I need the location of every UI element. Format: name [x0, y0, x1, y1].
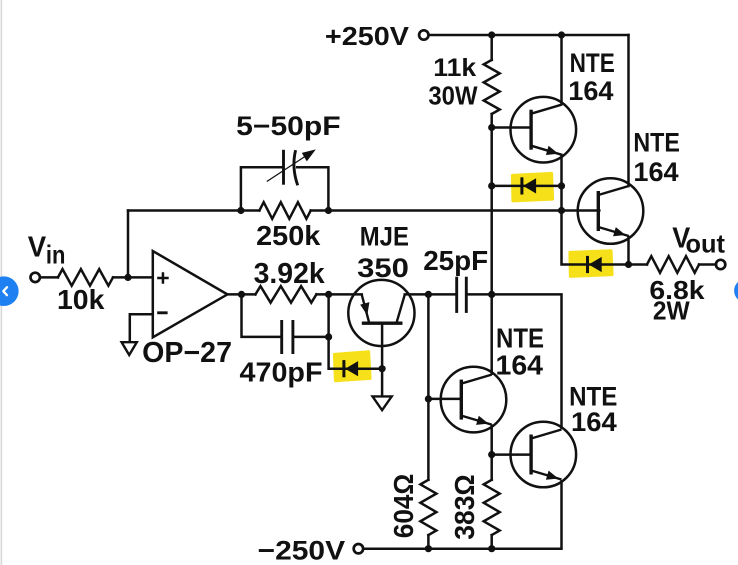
node 25pF left / 604 branch: [425, 291, 432, 298]
svg-text:164: 164: [571, 407, 617, 437]
highlight over diode D3: [570, 251, 612, 276]
wire 470pF left arm: [242, 294, 282, 337]
node D2 / Q5 base stem: [379, 365, 386, 372]
node Q4 base / 383 branch: [488, 451, 495, 458]
page left edge divider: [1, 0, 3, 565]
svg-text:10k: 10k: [57, 284, 105, 315]
svg-text:5−50pF: 5−50pF: [236, 111, 340, 141]
wire Q5 base stem to ground: [381, 323, 384, 396]
node 25pF right / spine: [488, 291, 495, 298]
svg-text:3.92k: 3.92k: [254, 258, 325, 290]
terminal Vout: [716, 260, 725, 269]
wire 470pF right arm: [293, 336, 329, 339]
svg-text:164: 164: [633, 157, 678, 187]
wire 10k to op-amp +input: [113, 276, 153, 279]
wire row node down to R 604: [427, 294, 430, 479]
svg-text:604Ω: 604Ω: [388, 474, 419, 539]
transistor Q1 NTE164 (top): [511, 97, 577, 163]
capacitor C 25pF plates: [455, 277, 458, 313]
resistor R 3.92k: [255, 286, 316, 303]
wire node down through 470pF node to diode D2 row: [329, 294, 383, 368]
wire +250V rail: [429, 34, 628, 37]
highlight over diode D1: [513, 174, 553, 201]
resistor R 11k 30W: [484, 60, 500, 114]
capacitor C 5-50pF trimmer plates: [282, 150, 285, 185]
svg-text:164: 164: [568, 76, 613, 106]
transistor Q4 NTE164 (lower right): [511, 422, 577, 488]
svg-text:+250V: +250V: [325, 21, 410, 51]
resistor R 250k: [259, 202, 310, 219]
wire D1 lead: [492, 185, 562, 188]
wire Q2 emitter drop: [627, 237, 630, 265]
svg-text:NTE: NTE: [570, 48, 615, 78]
transistor Q3 NTE164 (lower left): [441, 367, 507, 433]
nav button next (right edge): [734, 279, 738, 303]
transistor Q2 NTE164 (output follower): [578, 178, 644, 244]
svg-text:MJE: MJE: [360, 221, 409, 251]
transistor Q5 MJE350 (PNP): [348, 280, 414, 346]
node D1 left: [488, 182, 495, 189]
node Q3 base: [425, 395, 432, 402]
wire -250V rail to Q4 emitter: [364, 481, 562, 548]
svg-text:350: 350: [357, 253, 409, 283]
capacitor C 470pF plates: [280, 320, 283, 354]
svg-text:164: 164: [496, 350, 544, 381]
wire Q4 base: [492, 453, 531, 456]
node Q1 base: [488, 124, 495, 131]
wire 604 to -250V rail: [427, 535, 430, 549]
node D3 / Q2 emitter / 6.8k: [625, 261, 632, 268]
diode D1 (highlighted): [522, 177, 536, 194]
svg-text:470pF: 470pF: [240, 357, 323, 388]
highlight over diode D2: [335, 352, 371, 381]
wire feedback row right to Q2 base: [311, 209, 600, 212]
terminal Vin: [31, 273, 40, 282]
svg-text:out: out: [686, 229, 726, 259]
trimmer adjustment arrow: [267, 155, 308, 182]
resistor R 10k: [58, 269, 113, 286]
resistor R 604ohm: [420, 480, 436, 535]
wire Q3 base: [428, 398, 461, 401]
svg-text:250k: 250k: [256, 220, 321, 251]
node 3.92k / MJE emitter: [325, 291, 332, 298]
wire Q2 collector drop: [627, 35, 630, 186]
svg-text:OP−27: OP−27: [142, 337, 232, 369]
node +input junction: [124, 274, 131, 281]
diode D2 (highlighted): [344, 360, 358, 377]
node +250V rail A: [488, 31, 495, 38]
svg-text:383Ω: 383Ω: [449, 474, 480, 540]
svg-text:in: in: [46, 239, 66, 269]
node +250V rail B: [558, 31, 565, 38]
svg-text:V: V: [28, 231, 46, 263]
resistor R 383ohm: [484, 480, 500, 535]
svg-text:30W: 30W: [428, 82, 478, 110]
node feedback / Q2 base: [558, 207, 565, 214]
wire 25pF to Q4 collector corner: [466, 294, 561, 427]
wire 6.8k to Vout terminal: [699, 263, 716, 266]
op-amp U1 OP-27: [153, 251, 228, 337]
wire stub: [490, 372, 493, 375]
node -250V rail A: [425, 545, 432, 552]
wire 3.92k to Q5 emitter: [316, 293, 361, 296]
svg-text:NTE: NTE: [633, 128, 680, 158]
wire rail to R 11k: [490, 35, 493, 60]
wire feedback row left: [128, 209, 259, 212]
node op-amp output: [238, 291, 245, 298]
wire 383 to -250V rail: [490, 535, 493, 549]
diode D3 (highlighted): [588, 256, 602, 273]
node D1 right: [558, 182, 565, 189]
wire trimmer cap left arm: [241, 167, 282, 210]
svg-text:11k: 11k: [433, 54, 476, 82]
ground (below MJE350): [373, 396, 392, 410]
svg-text:−250V: −250V: [258, 535, 346, 565]
wire Q1 emitter / diode row to D3: [562, 155, 629, 265]
wire D3 node to R 6.8k: [629, 263, 648, 266]
wire Q1 base: [492, 126, 532, 129]
wire trimmer cap right arm: [297, 167, 328, 210]
ground (op-amp -input): [122, 342, 137, 355]
wire Q5 collector to C 25pF: [405, 293, 457, 296]
svg-text:2W: 2W: [653, 298, 691, 326]
node feedback right: [325, 207, 332, 214]
wire op-amp out to R 3.92k: [227, 293, 255, 296]
node 470pF right: [325, 333, 332, 340]
resistor R 6.8k 2W: [647, 256, 699, 273]
wire Vin to R 10k: [41, 276, 58, 279]
wire feedback corner down to +input: [127, 211, 130, 278]
wire Q3 emitter down / R 383 top: [490, 426, 493, 480]
wire -input to ground: [130, 314, 153, 342]
nav button previous (left edge): [0, 276, 19, 306]
node feedback left: [237, 207, 244, 214]
node -250V rail B: [488, 545, 495, 552]
wire Q1 collector drop: [560, 35, 563, 104]
wire spine x=492 (11k to Q3 collector): [490, 114, 493, 374]
terminal +250V: [419, 30, 428, 39]
terminal -250V: [354, 544, 363, 553]
svg-text:25pF: 25pF: [423, 245, 488, 276]
